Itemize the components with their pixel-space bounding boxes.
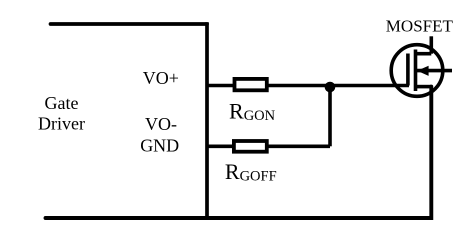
wire: bottom rail (gate driver bottom to MOSFET source) [46, 87, 432, 218]
resistor R_GOFF [234, 141, 267, 152]
wire: gate driver box right edge [205, 22, 209, 218]
MOSFET body circle [391, 45, 443, 97]
MOSFET drain stub [416, 52, 432, 56]
svg-text:MOSFET: MOSFET [386, 17, 454, 36]
svg-text:Driver: Driver [38, 113, 85, 133]
MOSFET body arrow [417, 66, 429, 76]
MOSFET drain lead [429, 36, 433, 53]
svg-text:Gate: Gate [45, 93, 79, 113]
wire: R_GOFF up to junction [328, 86, 332, 146]
MOSFET gate bar [406, 54, 410, 86]
MOSFET Q1 [391, 36, 452, 96]
svg-text:RGOFF: RGOFF [225, 159, 277, 185]
MOSFET channel bar [414, 50, 418, 92]
wire: VO+ output to MOSFET gate [207, 84, 409, 88]
svg-text:VO+: VO+ [143, 68, 179, 88]
junction dot [325, 82, 336, 93]
svg-text:VO-: VO- [145, 114, 177, 134]
svg-text:RGON: RGON [229, 98, 276, 124]
MOSFET source stub [416, 85, 432, 89]
wire: VO-/GND output [207, 145, 330, 149]
wire: gate driver box top edge [51, 22, 208, 26]
svg-text:GND: GND [140, 135, 179, 155]
resistor R_GON [235, 79, 267, 90]
MOSFET body line [417, 69, 453, 73]
